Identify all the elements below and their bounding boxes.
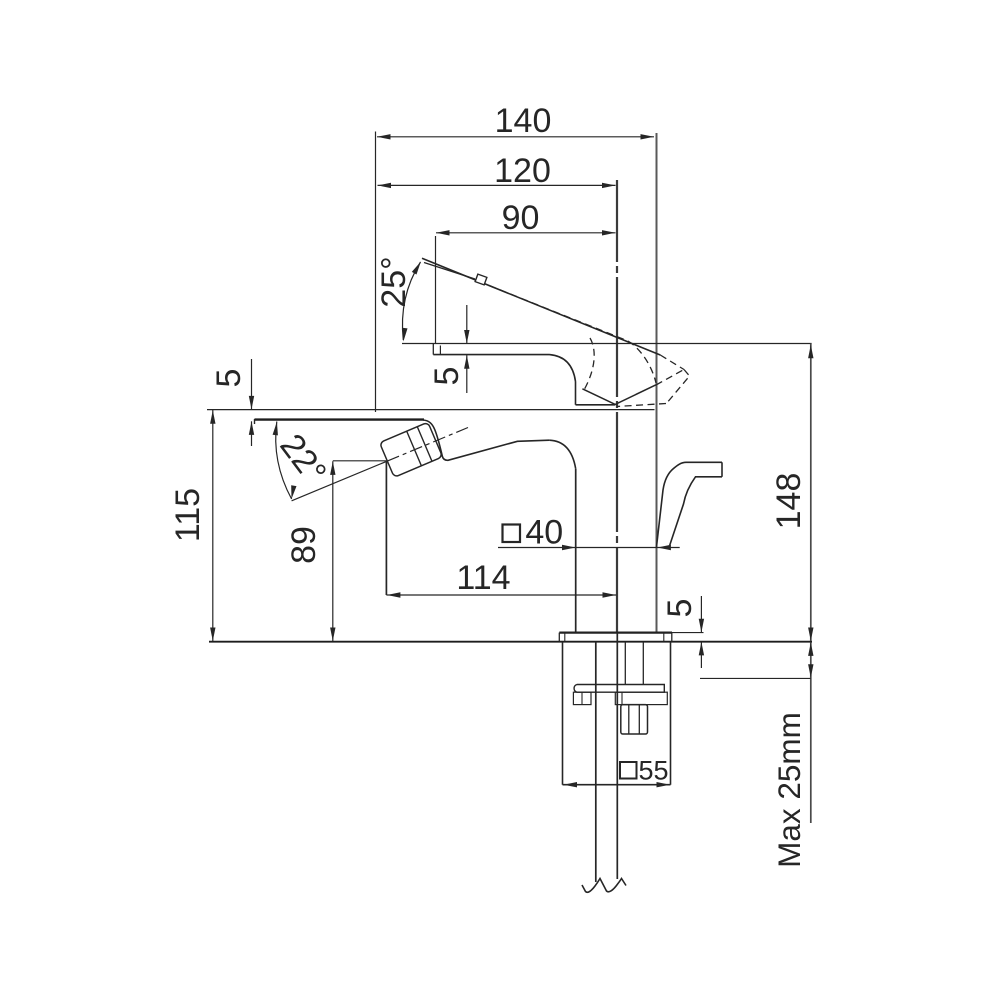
svg-text:89: 89	[285, 526, 323, 564]
svg-text:120: 120	[494, 152, 551, 190]
svg-text:5: 5	[661, 599, 699, 618]
svg-text:Max 25mm: Max 25mm	[771, 712, 807, 868]
svg-text:90: 90	[502, 199, 540, 237]
svg-text:114: 114	[456, 559, 510, 597]
svg-text:5: 5	[428, 367, 466, 386]
svg-text:148: 148	[770, 473, 808, 530]
svg-text:40: 40	[525, 514, 563, 552]
svg-text:55: 55	[638, 756, 668, 786]
svg-text:5: 5	[210, 369, 248, 388]
svg-text:115: 115	[169, 488, 207, 542]
svg-text:25°: 25°	[375, 256, 413, 307]
svg-text:140: 140	[495, 102, 552, 140]
